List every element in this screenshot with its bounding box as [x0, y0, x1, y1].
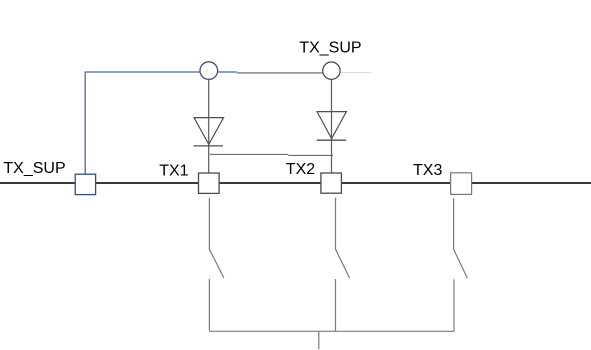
svg-text:TX_SUP: TX_SUP	[299, 40, 361, 57]
svg-text:TX2: TX2	[286, 161, 315, 178]
svg-text:TX1: TX1	[159, 163, 188, 180]
svg-text:TX3: TX3	[413, 162, 442, 179]
svg-text:TX_SUP: TX_SUP	[3, 160, 65, 177]
